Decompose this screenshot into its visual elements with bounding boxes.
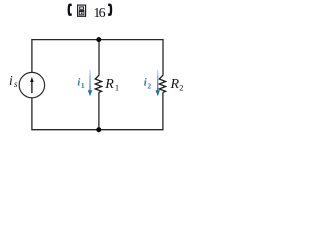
svg-text:i: i <box>144 78 147 89</box>
svg-text:6: 6 <box>99 6 106 21</box>
current source is <box>19 72 44 97</box>
resistor R1 <box>95 75 101 92</box>
svg-text:2: 2 <box>179 83 183 92</box>
wire left lower <box>31 98 33 131</box>
resistor R2 <box>159 75 165 92</box>
svg-text:1: 1 <box>81 81 85 90</box>
node bottom junction <box>96 127 101 132</box>
svg-text:2: 2 <box>147 81 151 90</box>
svg-text:s: s <box>14 79 18 89</box>
svg-text:R: R <box>104 77 114 92</box>
wire bottom <box>32 129 163 131</box>
wire middle lower <box>98 92 100 130</box>
svg-text:R: R <box>170 77 180 92</box>
current arrow i1 <box>89 70 91 91</box>
svg-text:1: 1 <box>115 83 119 92</box>
wire left upper <box>31 39 33 73</box>
wire middle upper <box>98 40 100 76</box>
wire top <box>32 39 163 41</box>
current arrow i2 <box>157 70 159 91</box>
wire right upper <box>162 39 164 76</box>
title bracket 】 <box>108 4 112 16</box>
wire right lower <box>162 92 164 130</box>
svg-text:i: i <box>9 73 13 88</box>
node top junction <box>96 37 101 42</box>
title character 圖 (Figure) <box>78 5 86 16</box>
title bracket 【 <box>68 4 72 16</box>
